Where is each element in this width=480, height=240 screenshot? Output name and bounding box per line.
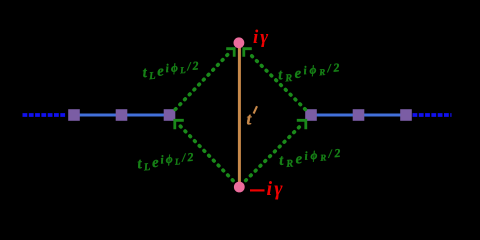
svg-text:tLeiϕL/2: tLeiϕL/2 <box>142 58 202 83</box>
bottom loss node -i gamma <box>234 182 245 193</box>
wire: left chain solid bond <box>74 113 170 116</box>
chain site square 1 <box>68 109 80 121</box>
svg-text:tReiϕR/2: tReiϕR/2 <box>277 60 343 85</box>
wire: right chain solid bond <box>311 113 406 116</box>
label -i gamma (bottom node) <box>250 189 265 191</box>
lower-right arrowhead at right square <box>297 120 306 129</box>
chain site square 4 (right diamond vertex) <box>305 109 317 121</box>
svg-text:t: t <box>247 110 253 129</box>
wire: right lead dashed (semi-infinite chain) <box>413 113 452 117</box>
chain site square 2 <box>116 109 128 121</box>
wire: left lead dashed (semi-infinite chain) <box>23 113 67 117</box>
svg-text:iγ: iγ <box>267 178 285 200</box>
chain site square 6 <box>400 109 412 121</box>
top gain node +i gamma <box>234 37 245 48</box>
svg-text:tReiϕR/2: tReiϕR/2 <box>278 146 344 171</box>
svg-text:tLeiϕL/2: tLeiϕL/2 <box>137 150 197 175</box>
upper-right hopping t_R e^{i phi_R/2} dashed arrow shaft <box>249 53 306 110</box>
chain site square 5 <box>353 109 365 121</box>
lower-right hopping t_R e^{i phi_R/2} dashed arrow shaft <box>246 126 301 181</box>
svg-text:iγ: iγ <box>253 27 270 48</box>
upper-right arrowhead at top node <box>244 49 252 57</box>
chain site square 3 (left diamond vertex) <box>164 109 176 121</box>
vertical coupling t' bond <box>238 48 241 183</box>
lower-left arrowhead at left square <box>175 120 184 129</box>
lower-left hopping t_L e^{i phi_L/2} dashed arrow shaft <box>180 126 233 181</box>
upper-left hopping t_L e^{i phi_L/2} dashed arrow shaft <box>175 53 229 110</box>
upper-left arrowhead at top node <box>226 49 234 57</box>
